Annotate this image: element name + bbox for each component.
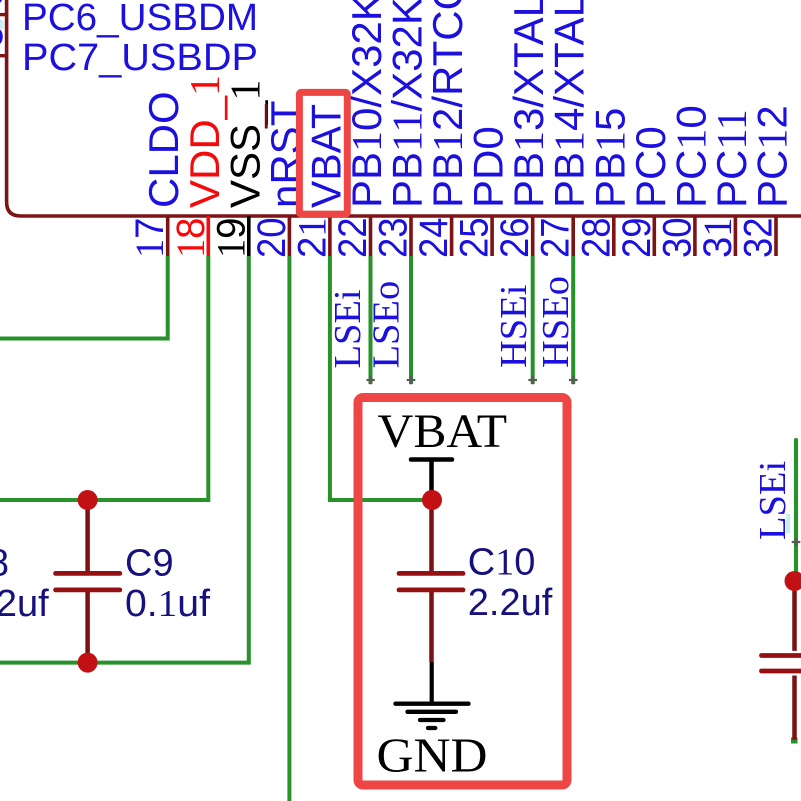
- wire pin20 nRST down: [287, 256, 291, 801]
- svg-text:C9: C9: [125, 542, 174, 584]
- svg-text:C10: C10: [468, 542, 536, 584]
- pin 24 stub: [450, 216, 454, 256]
- junction dot LSEi right: [785, 571, 801, 591]
- svg-text:0.1uf: 0.1uf: [125, 583, 210, 625]
- pin 31 stub: [734, 216, 738, 256]
- svg-text:27: 27: [534, 218, 578, 259]
- svg-text:19: 19: [208, 218, 253, 259]
- svg-text:PC6_USBDM: PC6_USBDM: [22, 0, 258, 39]
- svg-text:PC7_USBDP: PC7_USBDP: [22, 37, 258, 79]
- capacitor C9 symbol: [56, 500, 120, 663]
- label anchor cross HSEi: [528, 376, 537, 385]
- nRST overbar tick: [265, 104, 268, 129]
- wire pin27 HSEo: [571, 256, 575, 384]
- pin 26 stub: [531, 216, 535, 256]
- power symbol GND: [396, 662, 469, 728]
- pin 25 stub: [490, 216, 494, 256]
- highlight box around VBAT pin name: [299, 92, 347, 214]
- svg-text:2.2uf: 2.2uf: [468, 582, 553, 624]
- pin 30 stub: [693, 216, 697, 256]
- wire pin21 VBAT to junction: [330, 256, 432, 500]
- pin 18 stub: [207, 216, 211, 256]
- wire LSEi right: [794, 440, 798, 571]
- svg-text:21: 21: [289, 218, 334, 259]
- capacitor right (LSE) symbol: [762, 581, 801, 740]
- wire pin26 HSEi: [531, 256, 535, 384]
- pin 17 stub: [166, 216, 170, 256]
- highlight box around VBAT capacitor circuit: [358, 398, 567, 786]
- label anchor cross LSEi: [367, 376, 375, 385]
- svg-text:24: 24: [412, 218, 456, 259]
- pin 15 stub (left side): [0, 13, 7, 16]
- wire pin22 LSEi: [369, 256, 373, 384]
- wire pin19 VSS rail to left edge: [0, 256, 249, 663]
- svg-text:23: 23: [372, 218, 416, 259]
- svg-text:GND: GND: [377, 728, 488, 783]
- svg-text:PC12: PC12: [749, 105, 797, 208]
- pin 23 stub: [409, 216, 413, 256]
- pin 20 stub: [288, 216, 292, 256]
- pin 19 stub: [247, 216, 251, 256]
- svg-text:2.2uf: 2.2uf: [0, 583, 49, 625]
- IC U1 body outline: [7, 0, 801, 216]
- svg-text:31: 31: [695, 218, 740, 259]
- junction dot VDD rail: [78, 490, 98, 510]
- power symbol VBAT: [411, 460, 452, 495]
- pin 27 stub: [571, 216, 575, 256]
- svg-text:LSEo: LSEo: [366, 281, 408, 369]
- svg-text:28: 28: [574, 218, 618, 259]
- svg-text:VBAT: VBAT: [378, 405, 508, 458]
- svg-text:17: 17: [127, 218, 172, 259]
- svg-text:25: 25: [453, 217, 497, 258]
- wire pin17 to left edge: [0, 256, 168, 339]
- pin 28 stub: [612, 216, 616, 256]
- highlight artifact at left edge: [0, 21, 4, 30]
- junction dot VBAT: [422, 490, 442, 510]
- svg-text:29: 29: [615, 218, 659, 259]
- svg-text:LSEi: LSEi: [327, 289, 369, 368]
- wire pin18 VDD rail to left edge: [0, 256, 208, 500]
- pin 32 stub: [774, 216, 778, 256]
- svg-text:22: 22: [331, 218, 375, 259]
- label anchor cross LSEo: [407, 376, 416, 385]
- svg-text:30: 30: [655, 218, 699, 259]
- junction dot VSS rail: [78, 653, 98, 673]
- pin 21 stub: [328, 216, 332, 256]
- pin 22 stub: [369, 216, 373, 256]
- svg-text:32: 32: [737, 218, 781, 259]
- svg-text:16: 16: [0, 10, 5, 55]
- svg-text:HSEi: HSEi: [493, 285, 535, 368]
- svg-text:20: 20: [250, 218, 294, 259]
- highlight artifact near LSEi wire: [786, 514, 790, 533]
- pin 29 stub: [652, 216, 656, 256]
- svg-text:C8: C8: [0, 542, 9, 584]
- label anchor cross HSEo: [569, 376, 578, 385]
- capacitor C10 symbol: [399, 500, 463, 662]
- wire pin23 LSEo: [409, 256, 413, 384]
- wire stub below right capacitor: [791, 738, 798, 744]
- svg-text:26: 26: [493, 218, 537, 259]
- svg-text:18: 18: [168, 218, 213, 259]
- label anchor cross LSEi right: [792, 538, 801, 547]
- svg-text:HSEo: HSEo: [535, 276, 577, 368]
- pin 16 stub (left side): [0, 54, 7, 57]
